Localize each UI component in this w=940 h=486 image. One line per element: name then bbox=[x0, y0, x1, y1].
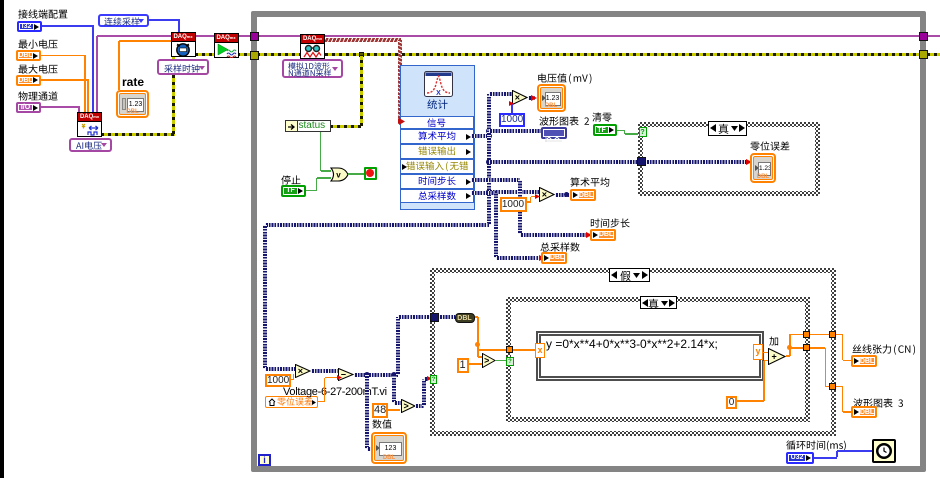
label 丝线张力（CN） bbox=[852, 344, 917, 356]
label 波形图表 3 bbox=[853, 398, 904, 410]
terminal 停止 TF bbox=[281, 185, 306, 197]
statistics express VI 统计 bbox=[400, 65, 475, 210]
indicator 总采样数 DBL bbox=[541, 252, 567, 264]
indicator 算术平均 DBL bbox=[570, 189, 596, 201]
subtract node bbox=[338, 368, 354, 381]
wire 0 to add bbox=[737, 400, 764, 402]
svg-text:+: + bbox=[771, 351, 776, 361]
label 最小电压 bbox=[18, 39, 58, 51]
while loop iteration terminal i bbox=[258, 454, 271, 466]
waveform wire bbox=[325, 38, 401, 42]
terminal 最大电压 DBL bbox=[16, 75, 41, 86]
wire DBLconv out bbox=[475, 316, 479, 318]
label 总采样数 indicator bbox=[540, 242, 580, 254]
wire rate to timing bbox=[118, 41, 120, 90]
label 清零 bbox=[592, 112, 612, 124]
greater node bottom bbox=[401, 399, 416, 413]
wire to formula x bbox=[478, 349, 536, 351]
constant 1000 orange bl bbox=[265, 374, 291, 387]
wire global to subtract bbox=[318, 401, 325, 403]
DAQmx Read VI bbox=[300, 34, 325, 59]
loop condition stop terminal bbox=[364, 167, 377, 180]
add node bbox=[768, 348, 786, 365]
indicator 电压值 express numeric bbox=[537, 84, 566, 112]
wire 连续采样 to timing bbox=[148, 19, 180, 21]
label 加 bbox=[769, 336, 779, 348]
terminal 循环时间 U32 bbox=[786, 452, 814, 464]
svg-text:v: v bbox=[336, 170, 341, 179]
black window edge strip bbox=[0, 0, 4, 478]
wire 1000 to multiply bbox=[511, 104, 513, 114]
wire mean down-left bbox=[265, 223, 489, 227]
wire tension bbox=[789, 334, 791, 347]
wire 1000mid to multiply2 bbox=[527, 201, 531, 203]
wire 清零 to case selector bbox=[617, 130, 626, 132]
ring constant 采样时钟 bbox=[157, 59, 209, 75]
constant 1000 orange mid bbox=[500, 197, 527, 212]
junction 2 bbox=[486, 189, 492, 195]
control rate bbox=[116, 90, 149, 118]
wire or to stop terminal bbox=[348, 173, 364, 175]
wire subtract out bbox=[354, 373, 398, 377]
wire 停止 to or bbox=[306, 190, 317, 192]
indicator 时间步长 DBL bbox=[590, 229, 616, 241]
case selector 假 bbox=[609, 268, 650, 282]
terminal 最小电压 DBL bbox=[16, 50, 41, 61]
wire multiply to 电压值 bbox=[528, 96, 535, 100]
wire 物理通道 task bbox=[41, 106, 80, 108]
tunnel green inner left bbox=[506, 357, 514, 366]
wire 1 to greater2 bbox=[469, 363, 482, 365]
case structure top (真) bbox=[638, 122, 820, 197]
multiply ×1000 mV bbox=[512, 90, 528, 105]
DAQmx Start Task VI bbox=[214, 33, 239, 58]
svg-text:×: × bbox=[515, 93, 520, 103]
svg-text:>: > bbox=[403, 401, 408, 411]
label 最大电压 bbox=[18, 64, 58, 76]
global variable 零位误差 (Voltage-6-27-200mT.vi) bbox=[265, 396, 318, 408]
task wire start-to-loop bbox=[237, 35, 252, 37]
greater node 2 bbox=[482, 353, 496, 368]
task wire inside loop to read bbox=[257, 35, 301, 37]
tunnel t1 outer bbox=[829, 331, 836, 338]
task wire timing-to-start bbox=[195, 35, 214, 37]
terminal 接线端配置 I32 bbox=[17, 21, 42, 32]
tunnel t2 inner bbox=[803, 344, 810, 351]
label 物理通道 bbox=[18, 91, 58, 103]
formula node bbox=[536, 331, 764, 381]
case selector 真 top bbox=[708, 121, 747, 136]
wire branch to 数值 bbox=[365, 375, 369, 449]
tunnel t2 outer bbox=[829, 383, 836, 390]
wire greater2 to tunnel bbox=[496, 360, 507, 362]
wire to greater2 top bbox=[477, 344, 479, 357]
constant 48 bbox=[372, 403, 388, 418]
label 零位误差 bbox=[750, 141, 790, 153]
or gate bbox=[330, 167, 349, 182]
error wire loop-to-read bbox=[257, 53, 301, 56]
wire 算术平均 out bbox=[471, 134, 491, 138]
wire 时间步长 bbox=[471, 178, 520, 182]
indicator 零位误差 express numeric bbox=[750, 153, 776, 183]
junction 算术平均 bbox=[486, 128, 492, 134]
label 算术平均 indicator bbox=[570, 177, 610, 189]
svg-text:×: × bbox=[298, 366, 303, 376]
error wire timing-to-start bbox=[195, 53, 214, 56]
case selector 真 inner bbox=[640, 296, 677, 309]
case structure bottom outer (假) bbox=[430, 268, 837, 436]
label 时间步长 indicator bbox=[590, 218, 630, 230]
tunnel error left bbox=[250, 51, 259, 60]
tunnel blue case bottom bbox=[430, 313, 439, 322]
error wire down to status bbox=[360, 55, 363, 127]
ring constant 模拟1D波形N通道N采样 bbox=[282, 59, 343, 78]
constant 0 bbox=[726, 396, 737, 409]
wire multiply2 to DBL bbox=[555, 193, 570, 197]
ring constant AI电压 bbox=[69, 138, 112, 152]
DAQmx Create Virtual Channel VI bbox=[77, 112, 102, 137]
wire U32 to wait bbox=[814, 457, 837, 459]
label 循环时间(ms) bbox=[786, 440, 847, 452]
svg-text:×: × bbox=[542, 190, 547, 200]
error wire read-to-right bbox=[325, 53, 940, 56]
tunnel case blue bbox=[637, 157, 646, 166]
multiply bottom bbox=[295, 364, 311, 378]
multiply ×1000 mean bbox=[539, 187, 555, 202]
tunnel task right bbox=[919, 32, 928, 41]
wire chart3 bbox=[790, 347, 826, 349]
terminal 清零 TF bbox=[593, 124, 617, 136]
tunnel task left bbox=[250, 32, 259, 41]
wire to multiply2 bbox=[489, 190, 539, 194]
wire 48 to greater bbox=[388, 409, 400, 411]
label 接线端配置 bbox=[18, 9, 68, 21]
wire add out bbox=[786, 355, 790, 357]
error junction bbox=[359, 52, 364, 57]
wire branch up to DBL bbox=[396, 317, 400, 375]
ring constant 连续采样 bbox=[98, 14, 149, 27]
indicator 波形图表2 bbox=[541, 127, 567, 139]
wire 最小电压 bbox=[41, 55, 86, 57]
wire 算术平均 to case bbox=[487, 136, 491, 225]
label 停止 bbox=[281, 175, 301, 187]
label 电压值（mV） bbox=[537, 73, 594, 85]
label rate bbox=[122, 76, 144, 89]
wire inside case to 零位误差 bbox=[646, 160, 747, 164]
svg-text:>: > bbox=[484, 356, 489, 366]
formula input x bbox=[535, 343, 545, 358]
wire status to or bbox=[320, 132, 322, 171]
wire 总采样数 bbox=[471, 191, 496, 195]
terminal 物理通道 I/O bbox=[16, 102, 41, 113]
label 波形图表 2 bbox=[539, 116, 590, 128]
wire I32 to create-channel bbox=[42, 25, 94, 27]
DBL conversion node bbox=[455, 313, 475, 323]
indicator 波形图表3 DBL bbox=[851, 406, 877, 418]
error wire create-out bbox=[101, 133, 175, 136]
tunnel orange inner left bbox=[506, 346, 513, 353]
tunnel error right bbox=[919, 50, 928, 59]
status unbundle node bbox=[285, 120, 331, 132]
while loop border bbox=[251, 11, 926, 472]
constant 1 bbox=[457, 358, 469, 373]
constant 1000 blue bbox=[499, 113, 525, 127]
tunnel case selector green bottom bbox=[430, 375, 437, 384]
wire to 波形图表2 bbox=[489, 129, 541, 133]
tunnel case selector green bbox=[639, 127, 647, 137]
wire branch to greater bbox=[392, 375, 396, 404]
formula text bbox=[546, 338, 718, 350]
wire greater to selector tunnel bbox=[415, 404, 424, 408]
wire 1000bl to multiply bbox=[291, 379, 294, 381]
wire up to multiply bbox=[487, 94, 491, 136]
wire multiply to subtract bbox=[311, 369, 338, 373]
wait until next ms multiple VI bbox=[872, 439, 896, 463]
error wire start-to-loop bbox=[237, 53, 252, 56]
svg-text:X: X bbox=[436, 90, 441, 97]
case structure bottom inner (真) bbox=[506, 297, 810, 423]
tunnel t1 inner bbox=[803, 331, 810, 338]
wire 最大电压 bbox=[41, 79, 89, 81]
indicator 丝线张力 DBL bbox=[851, 355, 877, 367]
label 数值 bbox=[372, 419, 392, 431]
label Voltage-6-27-200mT.vi bbox=[283, 387, 387, 398]
wire y to add bbox=[763, 352, 768, 354]
task wire create-to-timing bbox=[96, 36, 98, 112]
formula output y bbox=[753, 344, 763, 360]
wire tunnel to DBLconv bbox=[439, 315, 455, 319]
indicator 数值 express numeric bbox=[371, 432, 407, 464]
task wire read-to-right-edge bbox=[325, 35, 940, 37]
DAQmx Timing VI bbox=[171, 32, 196, 57]
